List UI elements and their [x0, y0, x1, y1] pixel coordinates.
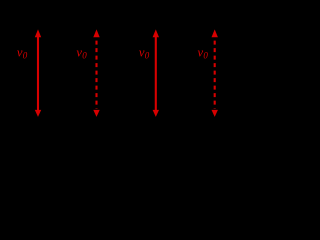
wire: dashed shaft of arrow 2: [95, 41, 97, 109]
wire: shaft of arrow 1: [37, 36, 39, 112]
label nu0 for arrow 2: [76, 46, 87, 61]
arrowhead top of arrow 2: [93, 29, 99, 37]
svg-text:0: 0: [145, 51, 150, 61]
arrowhead bottom of arrow 3: [153, 110, 159, 117]
arrow 2: dashed double-headed vertical arrow (frequency nu0): [93, 29, 99, 117]
label nu0 for arrow 4: [198, 46, 209, 61]
arrowhead bottom of arrow 2: [93, 110, 99, 117]
arrowhead bottom of arrow 4: [212, 110, 218, 117]
svg-text:0: 0: [203, 51, 208, 61]
arrowhead top of arrow 3: [153, 29, 159, 37]
arrowhead top of arrow 4: [212, 29, 218, 37]
svg-text:0: 0: [82, 51, 87, 61]
label nu0 for arrow 1: [17, 46, 28, 61]
svg-text:0: 0: [23, 51, 28, 61]
arrow 4: dashed double-headed vertical arrow (frequency nu0): [212, 29, 218, 117]
wire: shaft of arrow 3: [155, 36, 157, 112]
label nu0 for arrow 3: [139, 46, 150, 61]
arrowhead top of arrow 1: [35, 29, 41, 37]
wire: dashed shaft of arrow 4: [214, 41, 216, 109]
arrow 3: solid double-headed vertical arrow (frequency nu0): [153, 29, 159, 117]
arrowhead bottom of arrow 1: [35, 110, 41, 117]
arrow 1: solid double-headed vertical arrow (frequency nu0): [35, 29, 41, 117]
